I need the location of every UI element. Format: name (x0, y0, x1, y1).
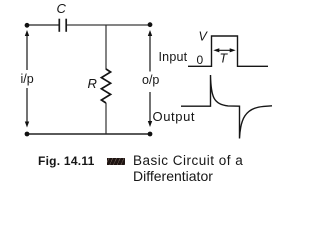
svg-text:R: R (88, 76, 97, 91)
wire resistor top lead from junction (105, 25, 107, 70)
caption figure number (38, 154, 95, 168)
node top-left input terminal (25, 23, 30, 28)
wire top-left segment (input node to capacitor) (27, 24, 59, 26)
o/p port arrow down (148, 92, 152, 127)
node bottom-right terminal (148, 132, 153, 137)
node bottom-left terminal (25, 132, 30, 137)
wire bottom (ground rail) (27, 133, 150, 135)
input waveform square pulse (188, 36, 268, 66)
resistor R (101, 69, 110, 103)
capacitor C (59, 19, 66, 32)
svg-text:C: C (57, 1, 67, 16)
svg-text:0: 0 (197, 53, 204, 67)
svg-text:o/p: o/p (142, 73, 159, 87)
i/p port arrow down (25, 88, 29, 128)
wire resistor bottom lead (105, 103, 107, 134)
output waveform differentiated spikes (181, 75, 272, 139)
wire top-right segment (capacitor to output node) (67, 24, 150, 26)
svg-text:T: T (220, 52, 229, 66)
caption title line 1 (133, 153, 243, 168)
caption decorative dash icon (107, 158, 125, 165)
T width arrow (double headed) (213, 48, 235, 52)
caption title line 2 (133, 168, 213, 184)
svg-text:V: V (199, 30, 209, 44)
o/p port arrow up (148, 30, 152, 72)
svg-text:Input: Input (159, 50, 188, 64)
svg-text:i/p: i/p (21, 72, 34, 86)
i/p port arrow up (25, 30, 29, 70)
svg-text:Output: Output (153, 109, 196, 124)
node top-right output terminal (148, 22, 153, 27)
